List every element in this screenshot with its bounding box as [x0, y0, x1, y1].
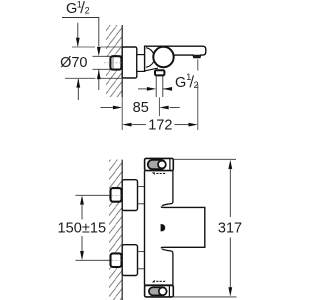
- union centerline: [104, 62, 122, 64]
- label G1/2 top: [66, 0, 90, 17]
- shower outlet pipe: [156, 76, 163, 97]
- lower union centerline: [104, 259, 122, 261]
- supply pipe (white fill over hatch): [93, 57, 111, 69]
- svg-text:G: G: [175, 75, 186, 91]
- wall hatch (side view): [106, 25, 122, 97]
- faucet body left edge (plan): [144, 171, 146, 286]
- svg-text:172: 172: [148, 118, 172, 134]
- arrow up at union bottom: [97, 69, 101, 90]
- svg-text:85: 85: [133, 100, 149, 116]
- temperature scale marks bottom: [152, 280, 165, 283]
- top handle cap (plan): [145, 158, 174, 170]
- upper union nut (plan): [111, 188, 122, 202]
- extension line wall face down: [121, 97, 123, 130]
- outlet dimension arrows: [138, 87, 172, 91]
- temperature scale marks top: [152, 172, 165, 175]
- arrow down at union top: [97, 47, 101, 56]
- dimension 85: [101, 100, 180, 116]
- svg-text:2: 2: [85, 5, 90, 15]
- svg-text:Ø70: Ø70: [60, 55, 87, 71]
- union nut (side view): [110, 56, 121, 69]
- shower outlet collar: [155, 70, 164, 75]
- supply pipe stub lines: [93, 56, 111, 69]
- svg-text:G: G: [66, 1, 77, 17]
- svg-text:317: 317: [218, 220, 242, 236]
- lower union nut (plan): [111, 253, 122, 267]
- faucet body and spout (side view): [145, 46, 206, 71]
- wall face line (plan view): [121, 160, 123, 300]
- label G1/2 shower outlet: [175, 72, 199, 91]
- dimension 317: [172, 159, 242, 297]
- wall face line (side view): [121, 25, 123, 97]
- dimension Ø70: [60, 23, 122, 100]
- escutcheon Ø70 (side view): [122, 47, 137, 78]
- lower escutcheon (plan): [122, 245, 137, 276]
- bottom handle cap (plan): [145, 285, 174, 297]
- upper connection stubs: [138, 187, 145, 204]
- dimension 172: [122, 118, 198, 134]
- faucet body right edge upper (plan): [162, 171, 173, 206]
- svg-text:150±15: 150±15: [58, 220, 107, 236]
- aerator: [193, 55, 201, 57]
- dimension 150±15: [58, 195, 110, 260]
- faucet body right edge lower (plan): [162, 249, 173, 286]
- lower connection stubs: [138, 252, 145, 269]
- thermostat knob circle: [153, 47, 173, 67]
- svg-text:1: 1: [77, 0, 82, 10]
- svg-text:1: 1: [186, 72, 191, 82]
- spout mark (plan, filled): [161, 224, 166, 231]
- wall hatch (plan view): [109, 160, 122, 300]
- upper union centerline: [104, 194, 122, 196]
- leader G1/2 top: [62, 18, 99, 47]
- upper escutcheon (plan): [122, 180, 137, 211]
- cartridge housing protrusion (plan): [161, 207, 204, 249]
- extension line aerator: [197, 59, 199, 130]
- connection cylinder: [137, 55, 145, 72]
- extension line outlet center: [158, 98, 160, 117]
